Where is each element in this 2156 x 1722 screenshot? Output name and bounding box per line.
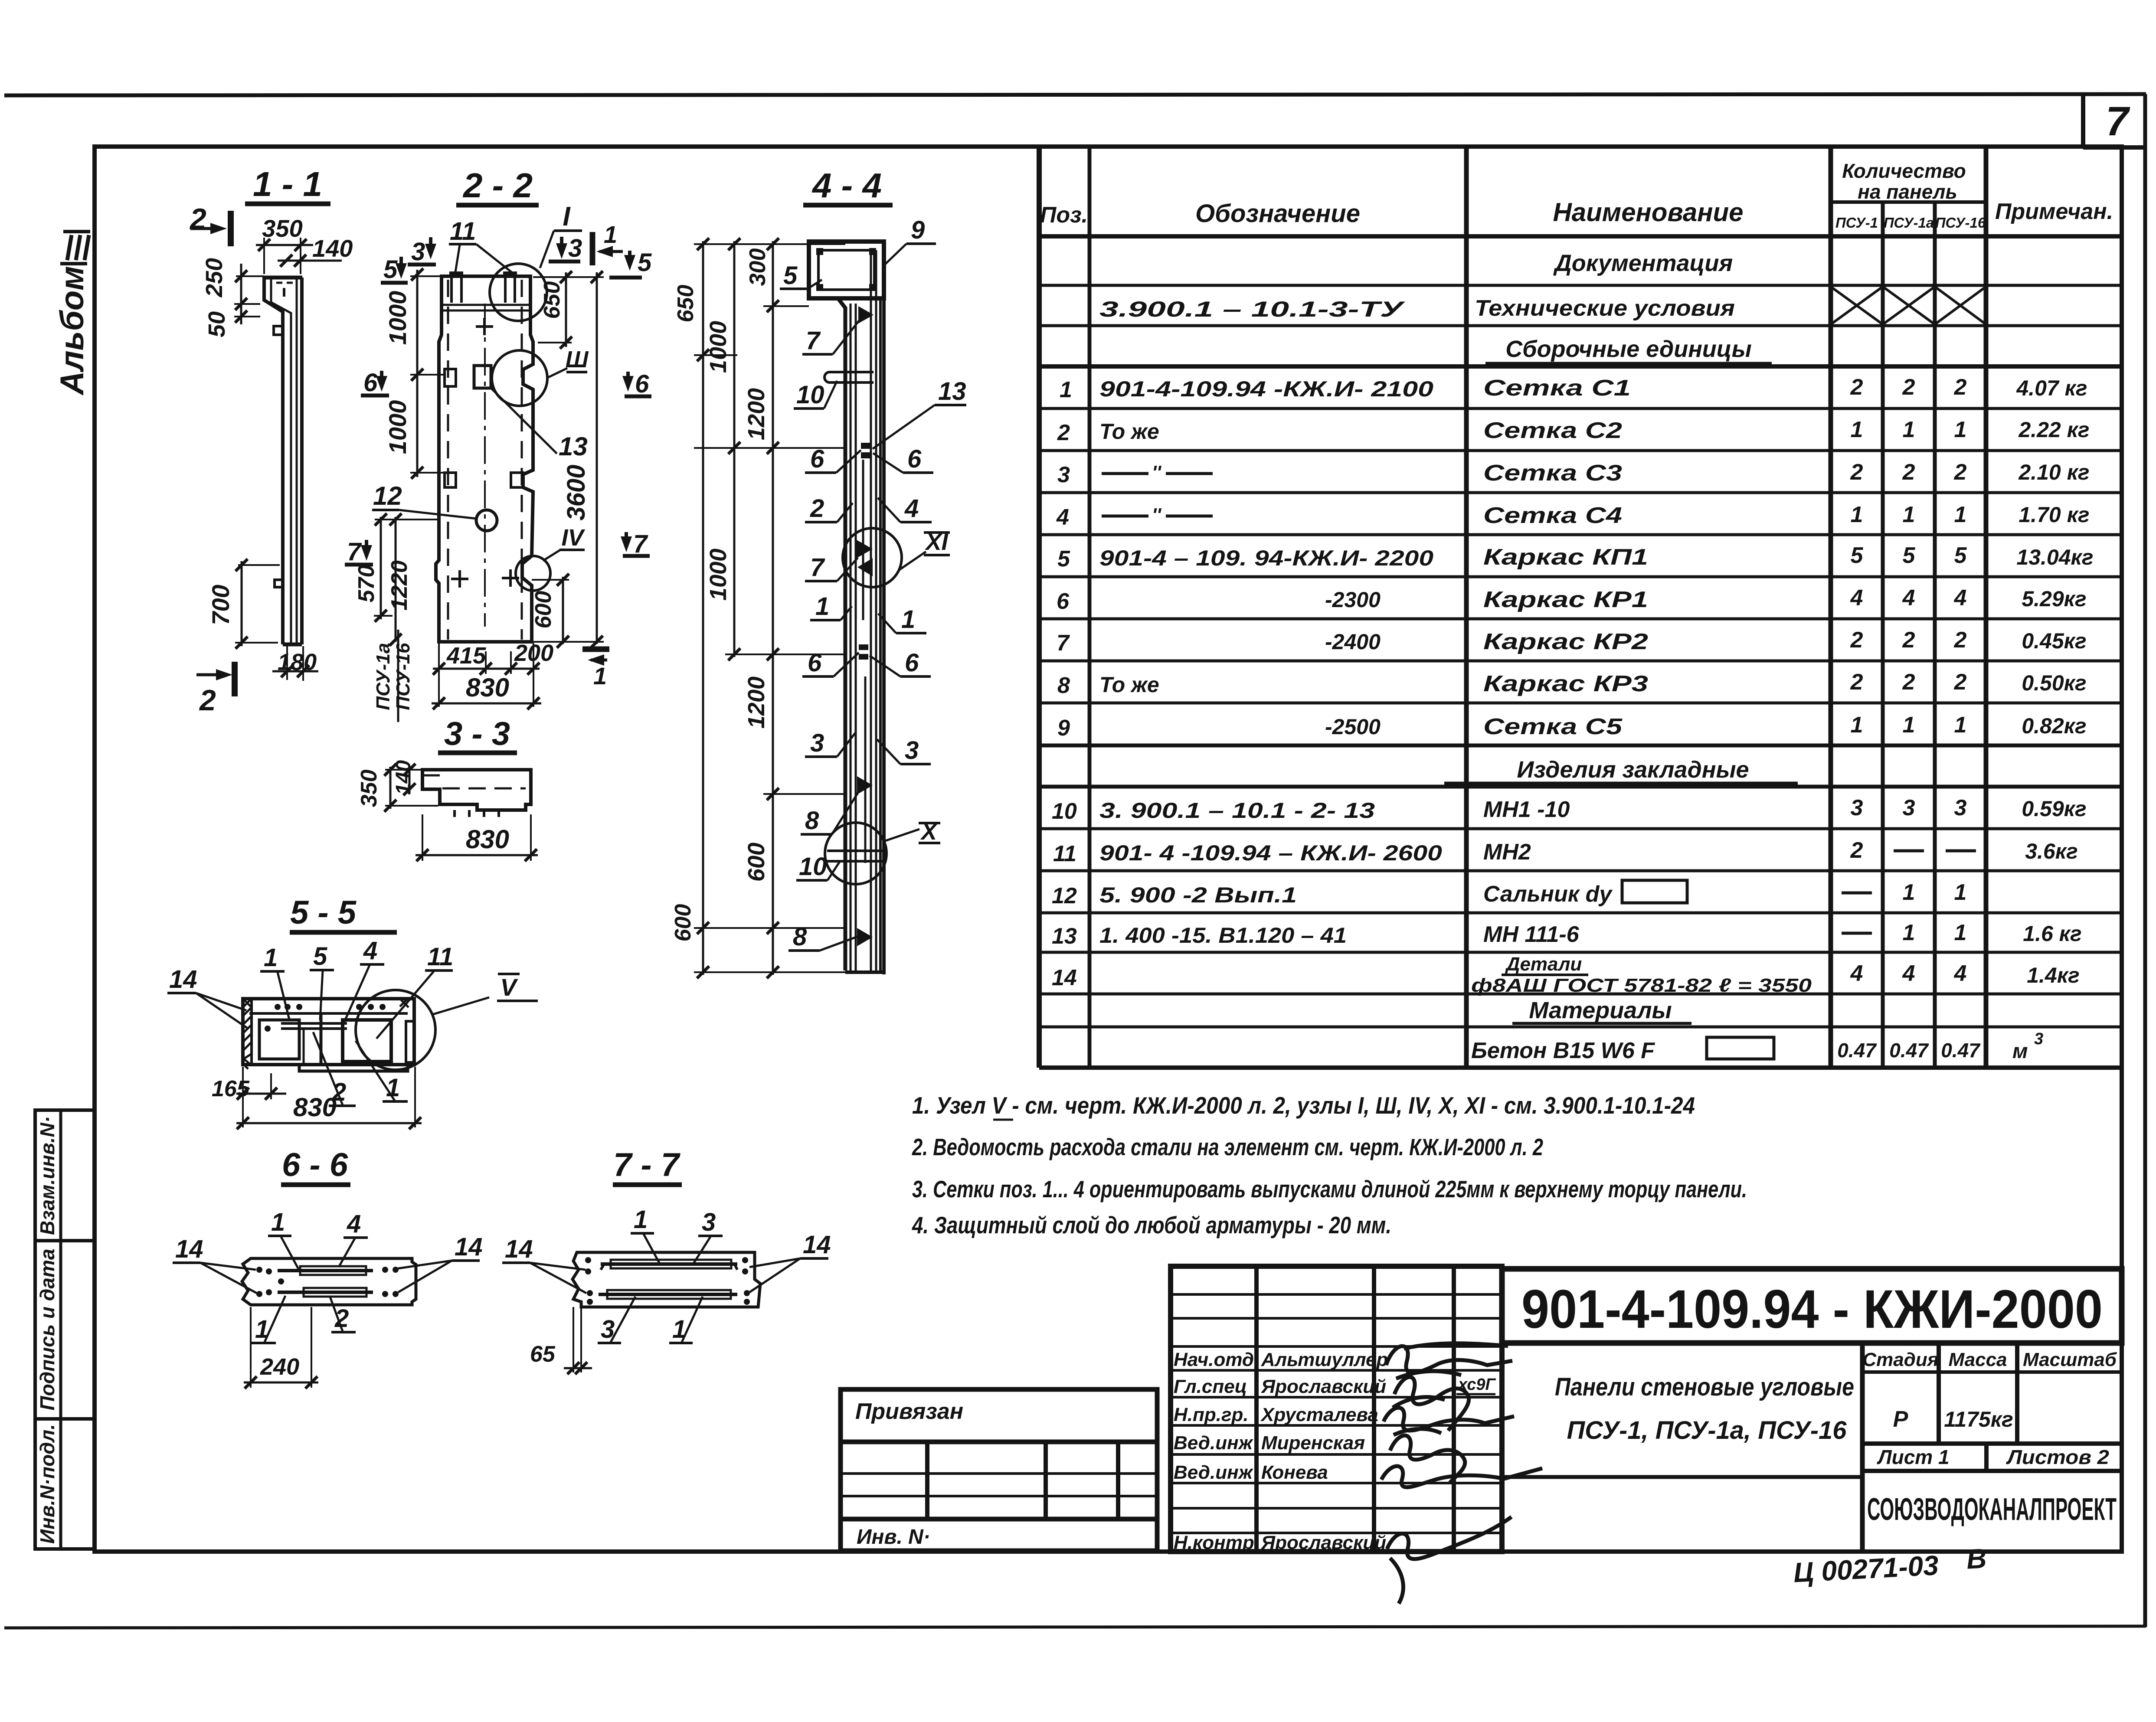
svg-text:Вед.инж: Вед.инж (1174, 1432, 1254, 1454)
svg-text:Ярославский: Ярославский (1261, 1376, 1386, 1397)
svg-text:4: 4 (363, 937, 377, 965)
dim 140 (1-1) (278, 235, 353, 267)
row 3 (1057, 460, 2090, 487)
svg-text:600: 600 (743, 843, 769, 882)
svg-text:1000: 1000 (384, 291, 411, 345)
svg-text:2: 2 (1954, 375, 1967, 400)
svg-text:2: 2 (189, 203, 206, 235)
svg-text:3: 3 (411, 238, 425, 266)
svg-text:Каркас КР2: Каркас КР2 (1483, 629, 1648, 654)
section marker 2 top (189, 203, 231, 246)
svg-text:Ц 00271-03: Ц 00271-03 (1793, 1549, 1939, 1588)
row 1 (1060, 375, 2087, 402)
node circle III (492, 346, 589, 406)
svg-text:Сетка С5: Сетка С5 (1483, 714, 1623, 739)
svg-text:3: 3 (1851, 795, 1863, 820)
svg-text:2: 2 (199, 684, 216, 717)
svg-text:0.50кг: 0.50кг (2022, 671, 2086, 695)
svg-text:7: 7 (806, 327, 821, 355)
привязан block (841, 1389, 1157, 1551)
section 4-4 title (803, 166, 893, 205)
svg-text:13: 13 (1052, 924, 1077, 949)
svg-text:Документация: Документация (1553, 250, 1733, 276)
svg-text:5: 5 (383, 255, 398, 284)
svg-text:3: 3 (810, 729, 824, 757)
svg-text:МН 111-6: МН 111-6 (1483, 922, 1580, 947)
row 2 (1057, 417, 2090, 445)
svg-text:2: 2 (1954, 460, 1967, 485)
right dims 650/3600/600 (2-2) (531, 271, 604, 648)
svg-text:7: 7 (810, 553, 825, 582)
section 4-4 element (809, 242, 884, 974)
svg-text:Н.пр.гр.: Н.пр.гр. (1174, 1404, 1249, 1425)
svg-text:Инв. N·: Инв. N· (857, 1526, 930, 1549)
svg-text:5: 5 (1903, 543, 1916, 568)
svg-text:Гл.спец: Гл.спец (1174, 1376, 1247, 1397)
svg-text:3: 3 (905, 736, 919, 765)
svg-text:1: 1 (1954, 880, 1967, 905)
svg-text:7: 7 (633, 530, 648, 558)
svg-text:3 - 3: 3 - 3 (444, 716, 510, 752)
dims 165/830 (5-5) (212, 1067, 422, 1129)
svg-text:830: 830 (293, 1093, 337, 1122)
svg-text:-2500: -2500 (1325, 715, 1381, 739)
svg-text:Каркас КР3: Каркас КР3 (1483, 671, 1648, 696)
svg-text:1: 1 (1903, 712, 1915, 738)
inner drawing frame (95, 147, 2122, 1552)
svg-text:3: 3 (702, 1208, 716, 1236)
svg-text:2: 2 (1850, 460, 1863, 485)
node circle X (825, 819, 940, 884)
svg-text:7: 7 (2106, 98, 2130, 144)
dims 250 / 50 (1-1) (201, 258, 264, 337)
svg-text:м: м (2012, 1040, 2028, 1063)
svg-text:Н.контр: Н.контр (1174, 1532, 1254, 1553)
svg-text:1: 1 (634, 1206, 648, 1234)
section 7-7 title (613, 1147, 682, 1185)
svg-text:0.47: 0.47 (1889, 1039, 1929, 1062)
svg-text:650: 650 (673, 285, 698, 323)
svg-text:650: 650 (540, 281, 565, 319)
svg-text:Поз.: Поз. (1040, 203, 1088, 228)
svg-text:3.6кг: 3.6кг (2025, 839, 2078, 863)
svg-text:11: 11 (450, 217, 476, 245)
svg-text:1: 1 (1851, 712, 1863, 738)
svg-text:2: 2 (1057, 420, 1070, 445)
node circle I (490, 202, 582, 321)
svg-text:Сетка С1: Сетка С1 (1483, 376, 1631, 401)
svg-text:830: 830 (466, 673, 509, 702)
svg-text:4: 4 (1850, 585, 1863, 611)
handwritten number Ц00271-03 В (1793, 1542, 1988, 1588)
row 12 (1052, 880, 1966, 908)
svg-text:2.22 кг: 2.22 кг (2018, 418, 2089, 442)
section 5-5 title (290, 894, 397, 932)
svg-text:2: 2 (1954, 627, 1967, 653)
svg-text:3: 3 (1903, 795, 1915, 820)
svg-text:1175кг: 1175кг (1944, 1407, 2013, 1431)
label 11 (2-2) (449, 217, 512, 272)
svg-text:901- 4 -109.94 – КЖ.И- 2600: 901- 4 -109.94 – КЖ.И- 2600 (1099, 841, 1442, 865)
svg-text:7: 7 (347, 538, 362, 566)
svg-text:1: 1 (815, 592, 829, 621)
svg-text:СОЮЗВОДОКАНАЛПРОЕКТ: СОЮЗВОДОКАНАЛПРОЕКТ (1867, 1492, 2117, 1527)
splice bars (862, 460, 864, 620)
svg-text:2: 2 (1902, 670, 1915, 695)
dim 180 (1-1) (272, 646, 318, 681)
section 5-5 element (243, 999, 414, 1071)
callout labels 4-4 (780, 216, 966, 951)
svg-text:3. 900.1 – 10.1 - 2- 13: 3. 900.1 – 10.1 - 2- 13 (1099, 798, 1375, 823)
svg-text:2: 2 (1954, 670, 1967, 695)
svg-text:Количество: Количество (1842, 160, 1966, 182)
svg-text:Каркас КП1: Каркас КП1 (1483, 545, 1648, 570)
svg-text:2: 2 (1902, 627, 1915, 653)
svg-text:Технические условия: Технические условия (1475, 296, 1735, 321)
svg-text:Взам.инв.N·: Взам.инв.N· (36, 1116, 59, 1235)
svg-text:9: 9 (1057, 716, 1070, 741)
svg-text:Ш: Ш (566, 346, 589, 373)
node circle V (356, 974, 538, 1070)
svg-text:0.59кг: 0.59кг (2022, 797, 2086, 821)
svg-text:600: 600 (671, 904, 696, 942)
svg-text:3: 3 (2034, 1030, 2043, 1048)
specification table grid (1039, 147, 2122, 1068)
svg-text:830: 830 (466, 825, 509, 854)
svg-text:13: 13 (938, 377, 966, 405)
svg-text:Р: Р (1893, 1407, 1908, 1432)
left dim chains 4-4 (671, 238, 845, 978)
row ТУ with crossed boxes (1099, 287, 1986, 324)
svg-text:180: 180 (278, 649, 317, 675)
svg-text:Сетка С3: Сетка С3 (1483, 461, 1622, 486)
svg-text:570: 570 (354, 565, 379, 603)
svg-text:6: 6 (907, 445, 922, 473)
left dims 570/1220 (2-2) (354, 513, 439, 646)
svg-text:Миренская: Миренская (1261, 1432, 1365, 1454)
svg-text:3600: 3600 (562, 464, 590, 520)
svg-text:1: 1 (264, 944, 278, 972)
svg-text:Изделия закладные: Изделия закладные (1517, 757, 1749, 783)
section 7-7 element (573, 1252, 760, 1307)
section markers around 2-2 (345, 221, 652, 689)
svg-text:0.47: 0.47 (1837, 1039, 1877, 1062)
row 5 (1057, 543, 2094, 572)
svg-text:Бетон В15 W6 F: Бетон В15 W6 F (1471, 1038, 1655, 1063)
row Бетон (1471, 1030, 2043, 1063)
svg-text:ПСУ-1, ПСУ-1а, ПСУ-16: ПСУ-1, ПСУ-1а, ПСУ-16 (1567, 1416, 1847, 1444)
svg-text:1200: 1200 (743, 388, 769, 440)
svg-text:Сетка С2: Сетка С2 (1483, 418, 1622, 443)
svg-text:10: 10 (799, 853, 827, 881)
title block: signature table (1171, 1266, 1542, 1604)
svg-text:Обозначение: Обозначение (1195, 199, 1360, 228)
svg-text:Сборочные единицы: Сборочные единицы (1505, 336, 1752, 362)
svg-text:5 - 5: 5 - 5 (290, 894, 357, 931)
svg-text:250: 250 (201, 258, 227, 297)
svg-text:1: 1 (1060, 377, 1072, 402)
svg-text:1: 1 (1903, 502, 1915, 527)
svg-text:4: 4 (347, 1210, 361, 1238)
callouts 6-6 (173, 1208, 483, 1343)
svg-text:1: 1 (1851, 502, 1863, 527)
svg-text:5.29кг: 5.29кг (2022, 587, 2086, 611)
svg-text:0.47: 0.47 (1941, 1039, 1981, 1062)
row 13 (1052, 920, 2082, 949)
svg-text:700: 700 (207, 585, 234, 625)
row 14 with Детали (1052, 954, 2080, 996)
svg-text:11: 11 (427, 943, 453, 971)
svg-text:2: 2 (810, 494, 824, 523)
svg-text:8: 8 (793, 923, 807, 951)
section row Изделия закладные (1444, 757, 1798, 783)
svg-text:1: 1 (1851, 417, 1863, 442)
section 2-2 panel outline (436, 271, 533, 642)
svg-text:1.4кг: 1.4кг (2027, 963, 2080, 987)
section 1-1 title (245, 165, 330, 204)
svg-text:1200: 1200 (743, 676, 769, 729)
svg-text:1220: 1220 (387, 560, 412, 611)
svg-text:Каркас КР1: Каркас КР1 (1483, 587, 1648, 612)
notes (912, 1092, 1747, 1238)
svg-text:8: 8 (805, 807, 819, 835)
svg-text:Альбом: Альбом (54, 266, 91, 396)
svg-text:6: 6 (1057, 589, 1070, 614)
svg-text:Сальник dу: Сальник dу (1483, 882, 1613, 907)
row 10 (1052, 795, 2087, 824)
bottom dims 415/200/830 (2-2) (373, 630, 553, 722)
section 6-6 element (242, 1258, 416, 1305)
callouts 5-5 (167, 937, 453, 1106)
svg-text:13.04кг: 13.04кг (2016, 545, 2093, 569)
svg-text:1. Узел V - см. черт. КЖ.И-20: 1. Узел V - см. черт. КЖ.И-2000 л. 2, уз… (912, 1092, 1695, 1119)
label 13 (2-2) (490, 387, 588, 461)
svg-text:-2400: -2400 (1325, 630, 1381, 654)
dim 240 (6-6) (244, 1307, 318, 1389)
svg-text:Примечан.: Примечан. (1995, 199, 2113, 224)
svg-text:1: 1 (593, 662, 607, 689)
svg-text:1: 1 (1954, 417, 1967, 442)
svg-text:14: 14 (175, 1235, 203, 1263)
svg-text:14: 14 (1052, 965, 1077, 990)
svg-text:5: 5 (783, 261, 798, 290)
svg-text:1: 1 (901, 605, 915, 634)
hooks / fittings inside column (858, 306, 874, 323)
svg-text:7 - 7: 7 - 7 (613, 1147, 681, 1183)
svg-text:8: 8 (1057, 673, 1070, 698)
row 4 (1056, 502, 2090, 530)
svg-text:1: 1 (1903, 417, 1915, 442)
svg-text:То же: То же (1099, 673, 1159, 697)
name cell (1502, 1343, 1862, 1552)
svg-text:1 - 1: 1 - 1 (253, 165, 322, 203)
svg-text:'': '' (1152, 462, 1161, 483)
svg-text:4: 4 (1954, 585, 1967, 611)
svg-text:140: 140 (312, 235, 353, 262)
dim 65 (7-7) (530, 1307, 592, 1374)
section row Материалы (1512, 997, 1691, 1023)
svg-text:-2300: -2300 (1325, 588, 1381, 612)
svg-text:12: 12 (373, 481, 402, 510)
svg-text:3.900.1 – 10.1-3-ТУ: 3.900.1 – 10.1-3-ТУ (1099, 297, 1406, 321)
svg-text:901-4 – 109. 94-КЖ.И- 2200: 901-4 – 109. 94-КЖ.И- 2200 (1099, 546, 1433, 570)
svg-text:Привязан: Привязан (855, 1399, 963, 1424)
svg-text:Вед.инж: Вед.инж (1174, 1462, 1254, 1483)
стадия масса масштаб (1862, 1343, 2122, 1527)
svg-text:1: 1 (604, 221, 617, 248)
svg-text:4: 4 (1954, 961, 1967, 986)
svg-text:2: 2 (1850, 375, 1863, 400)
svg-text:4.07 кг: 4.07 кг (2016, 376, 2087, 400)
svg-text:6: 6 (363, 369, 378, 397)
svg-text:1.70 кг: 1.70 кг (2019, 503, 2089, 527)
svg-text:5. 900 -2 Вып.1: 5. 900 -2 Вып.1 (1099, 883, 1297, 907)
left stamp column (35, 1110, 95, 1549)
svg-text:3: 3 (1954, 795, 1967, 820)
svg-text:Конева: Конева (1261, 1462, 1328, 1483)
svg-text:'': '' (1152, 504, 1161, 526)
svg-text:2: 2 (1902, 375, 1915, 400)
svg-text:ПСУ-1а: ПСУ-1а (373, 643, 394, 710)
svg-text:1000: 1000 (384, 400, 411, 454)
svg-text:140: 140 (392, 760, 415, 795)
svg-text:Масса: Масса (1948, 1349, 2007, 1370)
svg-text:12: 12 (1052, 883, 1077, 908)
svg-text:ПСУ-16: ПСУ-16 (393, 643, 414, 710)
svg-text:600: 600 (531, 591, 556, 629)
svg-text:3: 3 (568, 234, 582, 262)
svg-text:11: 11 (1053, 841, 1076, 866)
svg-text:14: 14 (455, 1233, 483, 1261)
row 9 (1057, 712, 2087, 741)
dim 700 (1-1) (207, 559, 280, 649)
section 3-3 title (438, 716, 517, 753)
svg-text:ПСУ-16: ПСУ-16 (1935, 215, 1986, 231)
svg-text:10: 10 (1052, 799, 1077, 824)
svg-text:1: 1 (1954, 712, 1967, 738)
svg-text:300: 300 (745, 248, 770, 286)
node circle XI (843, 528, 950, 587)
svg-text:4. Защитный слой до любой: 4. Защитный слой до любой арматуры - 20 … (912, 1212, 1391, 1238)
svg-text:14: 14 (803, 1231, 831, 1259)
section marker 2 bottom (196, 662, 235, 717)
svg-text:IV: IV (561, 525, 585, 551)
svg-text:2: 2 (1850, 838, 1863, 863)
svg-text:5: 5 (1851, 543, 1864, 568)
svg-text:200: 200 (514, 640, 553, 666)
svg-text:350: 350 (262, 215, 302, 242)
svg-text:2: 2 (1850, 670, 1863, 695)
svg-text:65: 65 (530, 1342, 556, 1367)
section 1-1 element (262, 278, 302, 644)
svg-text:14: 14 (169, 965, 197, 993)
svg-text:Панели стеновые угловые: Панели стеновые угловые (1555, 1373, 1854, 1401)
table header text (1040, 160, 2113, 231)
svg-text:9: 9 (911, 216, 925, 244)
svg-text:2.10 кг: 2.10 кг (2018, 460, 2089, 484)
svg-text:3. Сетки поз. 1... 4 ориентир: 3. Сетки поз. 1... 4 ориентировать выпус… (912, 1176, 1747, 1202)
svg-text:ф8АШ ГОСТ 5781-82 ℓ = 3550: ф8АШ ГОСТ 5781-82 ℓ = 3550 (1471, 975, 1812, 996)
svg-text:5: 5 (1954, 543, 1967, 568)
svg-text:В: В (1966, 1542, 1987, 1575)
album III vertical text (54, 232, 91, 396)
svg-text:6: 6 (905, 649, 919, 677)
section 6-6 title (281, 1147, 350, 1185)
svg-text:13: 13 (559, 432, 588, 461)
svg-text:2 - 2: 2 - 2 (462, 166, 533, 205)
row 11 (1053, 838, 2078, 866)
svg-text:1: 1 (1903, 880, 1915, 905)
row 8 (1057, 670, 2087, 698)
page number box 7 (2083, 95, 2145, 147)
svg-text:1. 400 -15. В1.120 – 41: 1. 400 -15. В1.120 – 41 (1099, 923, 1347, 948)
svg-text:Лист 1: Лист 1 (1877, 1446, 1950, 1468)
section 3-3 element (422, 770, 531, 817)
svg-text:МН2: МН2 (1483, 840, 1531, 865)
svg-text:901-4-109.94 -КЖ.И- 2100: 901-4-109.94 -КЖ.И- 2100 (1099, 377, 1433, 401)
svg-text:2. Ведомость расхода стали на: 2. Ведомость расхода стали на элемент см… (912, 1134, 1543, 1160)
svg-text:4: 4 (1902, 961, 1915, 986)
left dim chain 1000/1000 (2-2) (384, 268, 445, 479)
svg-text:0.45кг: 0.45кг (2022, 629, 2086, 653)
svg-text:415: 415 (446, 643, 486, 669)
svg-text:5: 5 (1057, 546, 1070, 572)
node circle IV (516, 525, 585, 591)
svg-text:Стадия: Стадия (1862, 1349, 1938, 1370)
section 2-2 title (456, 166, 539, 205)
svg-text:240: 240 (260, 1354, 299, 1380)
svg-text:Сетка С4: Сетка С4 (1483, 503, 1622, 528)
label 12 (2-2) (372, 481, 477, 519)
svg-text:2: 2 (1902, 460, 1915, 485)
svg-text:2: 2 (1850, 627, 1863, 653)
designation box 901-4-109.94-КЖИ-2000 (1502, 1269, 2122, 1343)
row 6 (1057, 585, 2087, 614)
svg-text:на панель: на панель (1858, 180, 1957, 203)
dim 350 (1-1) (256, 215, 313, 274)
svg-text:1: 1 (1903, 920, 1915, 945)
svg-text:хс9Г: хс9Г (1457, 1376, 1496, 1394)
svg-text:4 - 4: 4 - 4 (811, 166, 882, 205)
svg-text:Детали: Детали (1505, 954, 1582, 975)
svg-text:0.82кг: 0.82кг (2022, 714, 2086, 738)
svg-text:1000: 1000 (705, 549, 731, 601)
svg-text:I: I (563, 202, 571, 232)
svg-text:350: 350 (357, 770, 382, 807)
svg-text:Хрусталева: Хрусталева (1260, 1404, 1378, 1425)
svg-text:10: 10 (796, 381, 824, 409)
svg-text:То же: То же (1099, 419, 1159, 444)
svg-text:4: 4 (1850, 961, 1863, 986)
svg-text:V: V (500, 974, 518, 1001)
svg-text:4: 4 (904, 494, 919, 523)
svg-text:5: 5 (313, 942, 327, 970)
svg-text:Нач.отд.: Нач.отд. (1174, 1349, 1259, 1370)
callouts 7-7 (502, 1206, 831, 1343)
svg-text:Масштаб: Масштаб (2023, 1349, 2117, 1370)
svg-text:6: 6 (635, 370, 649, 398)
svg-text:4: 4 (1902, 585, 1915, 611)
svg-text:1: 1 (1954, 502, 1967, 527)
svg-text:Альтшуллер: Альтшуллер (1261, 1349, 1388, 1370)
svg-text:3: 3 (1057, 462, 1070, 487)
svg-text:50: 50 (204, 311, 230, 337)
svg-text:1: 1 (271, 1208, 285, 1236)
svg-text:4: 4 (1056, 505, 1069, 530)
svg-text:6: 6 (810, 445, 824, 473)
svg-text:Листов 2: Листов 2 (2006, 1446, 2110, 1468)
svg-text:Ярославский: Ярославский (1261, 1532, 1386, 1553)
